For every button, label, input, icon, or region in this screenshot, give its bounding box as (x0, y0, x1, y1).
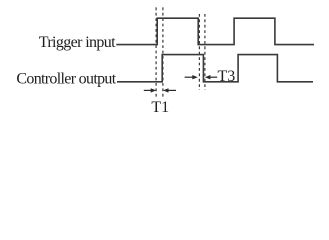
T1 dimension arrow left (points right at d1) (144, 88, 156, 92)
T1 dimension arrow right (points left at d2) (163, 88, 176, 92)
T3 dimension arrow left (points right at d3) (185, 75, 198, 79)
dashed marker d2: controller rising edge (162, 7, 164, 97)
label: T3 (218, 68, 236, 85)
svg-text:T1: T1 (151, 99, 169, 116)
dashed marker d3: trigger falling edge (198, 14, 200, 90)
label: T1 (151, 99, 169, 116)
T3 dimension arrow right (points left at d4) (205, 75, 217, 79)
dashed marker d1: trigger rising edge (155, 7, 157, 97)
svg-text:Trigger input: Trigger input (39, 34, 116, 51)
dashed marker d4: controller falling edge (204, 14, 206, 90)
label: Trigger input (39, 34, 116, 51)
wire + waveform: Controller output (117, 55, 313, 82)
wire + waveform: Trigger input (116, 18, 314, 44)
svg-text:Controller output: Controller output (16, 70, 116, 87)
svg-text:T3: T3 (218, 68, 236, 85)
label: Controller output (16, 70, 116, 87)
